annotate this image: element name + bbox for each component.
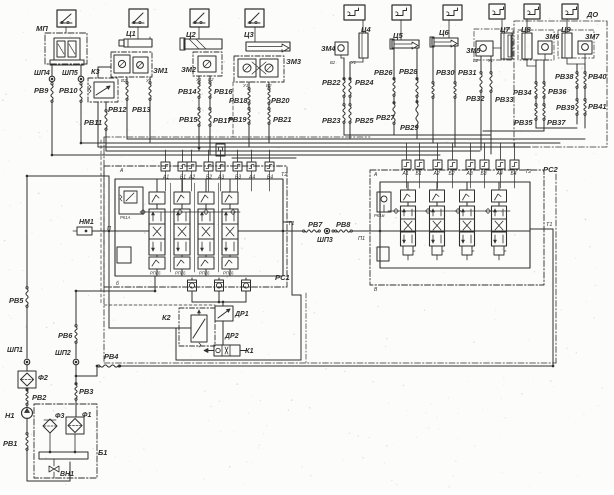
svg-text:Ц6: Ц6	[439, 28, 450, 37]
svg-text:РВ8: РВ8	[336, 220, 351, 229]
throttle check K1	[214, 345, 240, 356]
wires C8 to hoses	[526, 59, 528, 66]
bus wire y143	[81, 142, 560, 144]
svg-text:РВ38: РВ38	[555, 72, 574, 81]
RS2 A-channel line with junctions	[388, 210, 510, 212]
svg-text:РС2: РС2	[543, 165, 559, 174]
wire RV5 column	[26, 176, 28, 287]
wire C9 ports down	[576, 115, 578, 124]
wire square stubs into RS2	[406, 169, 408, 188]
svg-text:ШП2: ШП2	[55, 350, 71, 357]
svg-text:РВ23: РВ23	[322, 116, 341, 125]
svg-text:МП: МП	[36, 24, 48, 33]
wire return line to T1	[120, 365, 553, 367]
svg-text:А3: А3	[466, 171, 473, 177]
bus wire y128 right	[536, 127, 577, 129]
RS2 left lower box	[377, 247, 389, 261]
wire K assembly frame	[175, 328, 177, 360]
boundary dash-dot top	[104, 136, 370, 138]
RS1 left lower box	[117, 247, 131, 263]
assembly box around ZM5 C7	[474, 29, 513, 60]
RS1 relief valve RK1A	[119, 187, 143, 214]
svg-text:К1: К1	[245, 346, 254, 355]
svg-text:РПГ6: РПГ6	[150, 271, 161, 276]
svg-text:РВ37: РВ37	[547, 118, 566, 127]
wire T1 return	[530, 228, 553, 230]
svg-text:Т1: Т1	[546, 222, 552, 228]
RS2 relief valve RK1M	[377, 192, 391, 212]
svg-text:РВ21: РВ21	[273, 115, 292, 124]
svg-text:А: А	[373, 172, 378, 178]
svg-text:РПГ6: РПГ6	[223, 271, 234, 276]
indicator box above C8	[524, 4, 540, 19]
svg-text:РВ11: РВ11	[84, 118, 102, 127]
svg-text:РВ22: РВ22	[322, 78, 341, 87]
RS1 section 3	[205, 179, 207, 192]
RS1 section 2	[181, 179, 183, 192]
svg-text:ДР2: ДР2	[224, 333, 239, 340]
wire square stubs into RS1	[165, 171, 167, 191]
svg-text:НМ1: НМ1	[79, 219, 94, 226]
RS2 body	[380, 182, 530, 268]
svg-text:РВ32: РВ32	[466, 94, 485, 103]
svg-text:РВ18: РВ18	[229, 96, 248, 105]
wire C3 ports down	[248, 124, 250, 147]
svg-text:Т2: Т2	[525, 169, 531, 175]
svg-text:Ц1: Ц1	[126, 29, 136, 38]
bus wire y131 right	[483, 130, 544, 132]
svg-text:ДО: ДО	[586, 10, 598, 19]
RS2 section 1	[407, 182, 409, 190]
svg-text:А3: А3	[217, 175, 224, 181]
indicator box above C6	[443, 5, 462, 20]
wire C6 ports down	[432, 98, 434, 143]
svg-text:ВН1: ВН1	[60, 471, 74, 478]
svg-text:РВ30: РВ30	[436, 68, 455, 77]
pilot valve on bus	[216, 144, 225, 156]
svg-text:РВ13: РВ13	[132, 105, 151, 114]
svg-text:ЗМ5: ЗМ5	[466, 48, 480, 55]
RS1 body	[115, 179, 283, 276]
svg-text:Ц2: Ц2	[186, 30, 197, 39]
gauge above C3	[245, 9, 264, 27]
junction dots	[108, 230, 110, 232]
wire from RV10 down to bus	[80, 102, 82, 143]
tank baffle	[39, 452, 88, 459]
svg-text:ЗМ6: ЗМ6	[545, 34, 559, 41]
boundary dash-dot right	[555, 174, 557, 363]
svg-text:А4: А4	[248, 175, 255, 181]
wire C2 ports down	[198, 126, 200, 151]
svg-text:А1: А1	[162, 175, 169, 181]
svg-text:ЗМ2: ЗМ2	[181, 65, 197, 74]
attachment boundary DO	[514, 21, 607, 147]
indicator box above C5	[392, 5, 411, 20]
svg-text:ЗМ7: ЗМ7	[585, 34, 600, 41]
svg-text:РПГ6: РПГ6	[199, 271, 210, 276]
assembly box around C8 ZM6	[518, 30, 554, 60]
gauge above C2	[190, 9, 209, 27]
RS1 A-channel line with junctions	[140, 211, 240, 213]
wire drops to RS1 ports	[165, 150, 167, 162]
svg-text:РВ9: РВ9	[34, 86, 49, 95]
svg-text:ШП3: ШП3	[317, 237, 333, 244]
svg-text:РВ6: РВ6	[58, 331, 73, 340]
wire T1 branch from RS1	[283, 221, 292, 223]
svg-text:РВ16: РВ16	[214, 87, 233, 96]
svg-text:Ф3: Ф3	[55, 413, 64, 420]
indicator box above C4	[344, 5, 365, 20]
svg-text:Б1: Б1	[416, 171, 422, 177]
svg-text:Т2: Т2	[281, 172, 287, 178]
RS2 port squares A1-B4	[402, 160, 411, 169]
svg-text:А1: А1	[402, 171, 409, 177]
svg-text:РПГ6: РПГ6	[175, 271, 186, 276]
bus wire y151	[106, 150, 480, 152]
svg-text:П1: П1	[358, 236, 365, 242]
bus wire y155	[52, 154, 440, 156]
bus wire y147	[98, 146, 530, 148]
svg-text:РВ7: РВ7	[308, 220, 323, 229]
RS1 port squares A1-B4	[161, 162, 170, 171]
svg-text:РВ26: РВ26	[374, 68, 393, 77]
svg-text:РВ1: РВ1	[3, 439, 17, 448]
wire MP ports down	[51, 65, 53, 76]
svg-text:У1: У1	[351, 60, 356, 65]
svg-text:Ф1: Ф1	[82, 412, 91, 419]
svg-text:Ц3: Ц3	[244, 30, 255, 39]
svg-text:РК1м: РК1м	[374, 213, 385, 218]
svg-text:РС1: РС1	[275, 273, 290, 282]
RS1 internal channel verticals	[170, 183, 172, 272]
svg-text:Б2: Б2	[449, 171, 455, 177]
svg-text:РВ36: РВ36	[548, 87, 567, 96]
svg-text:У1: У1	[243, 83, 249, 88]
svg-text:РВ27: РВ27	[376, 113, 395, 122]
wire return from P to K2	[108, 231, 110, 328]
svg-text:А2: А2	[433, 171, 440, 177]
drain from RS1 to ShP2 column	[154, 276, 156, 291]
svg-text:РВ28: РВ28	[399, 67, 418, 76]
svg-text:Б4: Б4	[511, 171, 517, 177]
svg-text:РК1А: РК1А	[120, 215, 131, 220]
wire C5 ports down	[393, 124, 395, 135]
svg-text:РВ34: РВ34	[513, 88, 532, 97]
svg-text:РВ20: РВ20	[271, 96, 290, 105]
svg-text:А2: А2	[188, 175, 195, 181]
svg-text:А4: А4	[496, 171, 503, 177]
boundary dash-dot bottom	[104, 362, 556, 364]
wire DR1 to K1	[222, 321, 224, 345]
svg-text:В2: В2	[208, 77, 214, 82]
pilot dash line from ZM3	[232, 82, 234, 137]
svg-text:РВ33: РВ33	[495, 95, 514, 104]
svg-text:РВ41: РВ41	[588, 102, 607, 111]
valve block RS1 boundary	[104, 166, 287, 287]
check valve under RS1 middle	[215, 280, 224, 291]
wire P supply	[27, 175, 109, 177]
wire K3 to ZM1	[97, 67, 99, 78]
wire pump suction	[26, 450, 28, 481]
svg-text:Б3: Б3	[481, 171, 487, 177]
svg-text:ЗМ3: ЗМ3	[286, 57, 302, 66]
wires C4 to hoses	[340, 55, 342, 58]
check valve under RS1 left	[188, 280, 197, 291]
svg-text:Б4: Б4	[267, 175, 273, 181]
dashed pilot line	[104, 304, 215, 306]
svg-text:Б1: Б1	[98, 448, 107, 457]
gauge MN1 indicator box	[57, 10, 76, 27]
svg-text:РВ4: РВ4	[104, 352, 118, 361]
wire drops to RS2 ports	[406, 143, 408, 160]
svg-text:РВ35: РВ35	[514, 118, 533, 127]
svg-text:РВ5: РВ5	[9, 296, 24, 305]
svg-text:РВ25: РВ25	[355, 116, 374, 125]
assembly box around C9 ZM7	[558, 30, 594, 58]
bus wire y139	[127, 138, 585, 140]
svg-text:В2: В2	[330, 60, 336, 65]
hose RV4 branch	[76, 375, 97, 377]
assembly dash boundary right	[305, 293, 307, 363]
wire check valve manifold	[191, 294, 193, 302]
svg-text:РВ19: РВ19	[228, 115, 247, 124]
RS2 section 3	[466, 182, 468, 190]
svg-text:РВ31: РВ31	[458, 68, 477, 77]
wire C4 ports down	[343, 123, 345, 135]
svg-text:РВ3: РВ3	[79, 387, 94, 396]
svg-text:Б1: Б1	[180, 175, 186, 181]
RS2 section 4	[498, 182, 500, 190]
wire RV12 down	[126, 100, 128, 139]
bus wire y135 right	[344, 134, 491, 136]
svg-text:ЗМ4: ЗМ4	[321, 46, 335, 53]
svg-text:РВ2: РВ2	[32, 393, 47, 402]
wire C8 ports down	[535, 120, 537, 128]
svg-text:РВ40: РВ40	[588, 72, 607, 81]
svg-text:РВ12: РВ12	[108, 105, 127, 114]
boundary dash-dot left	[103, 137, 105, 363]
bus wire y158 short	[232, 157, 296, 159]
svg-text:РВ10: РВ10	[59, 86, 78, 95]
svg-text:РВ15: РВ15	[179, 115, 198, 124]
RS1 section 4	[229, 179, 231, 192]
indicator box above C9	[562, 4, 578, 19]
wires C9 to hoses	[566, 58, 568, 64]
svg-text:К3: К3	[91, 67, 101, 76]
RS2 section 2	[436, 182, 438, 190]
svg-text:ШП4: ШП4	[34, 70, 50, 77]
svg-text:ШП1: ШП1	[7, 347, 23, 354]
wire RV11 to bus	[105, 130, 107, 151]
indicator box above C7	[489, 4, 505, 19]
wire from RV9 down to bus	[51, 102, 53, 155]
svg-text:Б3: Б3	[235, 175, 241, 181]
svg-text:РВ14: РВ14	[178, 87, 197, 96]
svg-text:ЗМ1: ЗМ1	[153, 66, 168, 75]
valve block RS2 boundary	[370, 170, 544, 285]
gauge above C1	[129, 9, 148, 27]
RS1 section 1	[156, 179, 158, 192]
svg-text:Ц5: Ц5	[393, 31, 404, 40]
throttle DR1	[215, 306, 233, 321]
svg-text:б: б	[116, 281, 119, 287]
wire K3 ports down	[97, 102, 99, 147]
svg-text:РВ39: РВ39	[556, 103, 575, 112]
wire C7 ports down	[480, 92, 482, 150]
wire gauge to MP	[65, 27, 67, 33]
wire RV13 down	[149, 100, 151, 143]
svg-text:Б2: Б2	[206, 175, 212, 181]
check valve under RS1 right	[242, 280, 251, 291]
svg-text:ШП5: ШП5	[62, 70, 78, 77]
svg-text:РВ24: РВ24	[355, 78, 374, 87]
svg-text:Ф2: Ф2	[38, 373, 49, 382]
svg-text:ДР1: ДР1	[234, 311, 249, 318]
svg-text:А: А	[119, 168, 124, 174]
dashed pilot vertical	[100, 140, 102, 305]
